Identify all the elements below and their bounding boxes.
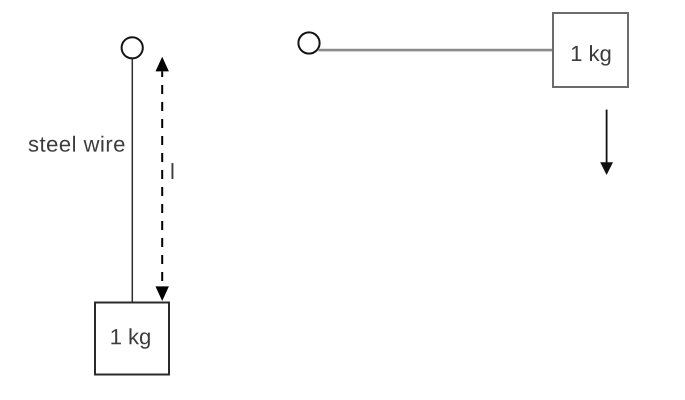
- pivot ring right: [298, 32, 319, 53]
- horizontal wire: [318, 49, 552, 52]
- label "1 kg" left: [111, 328, 149, 349]
- mass box left (1 kg): [95, 303, 169, 375]
- label "1 kg" right: [572, 45, 611, 66]
- arrowhead down: [156, 286, 169, 301]
- arrowhead weight: [600, 162, 613, 175]
- label "steel wire": [29, 136, 125, 152]
- weight arrow (downward): [606, 110, 608, 163]
- mass box right (1 kg): [553, 13, 628, 87]
- pivot ring left: [122, 37, 143, 58]
- dashed length arrow (double-headed): [161, 72, 163, 287]
- steel wire (vertical wire): [131, 59, 133, 302]
- label "l": [172, 163, 174, 179]
- arrowhead up: [156, 57, 169, 72]
